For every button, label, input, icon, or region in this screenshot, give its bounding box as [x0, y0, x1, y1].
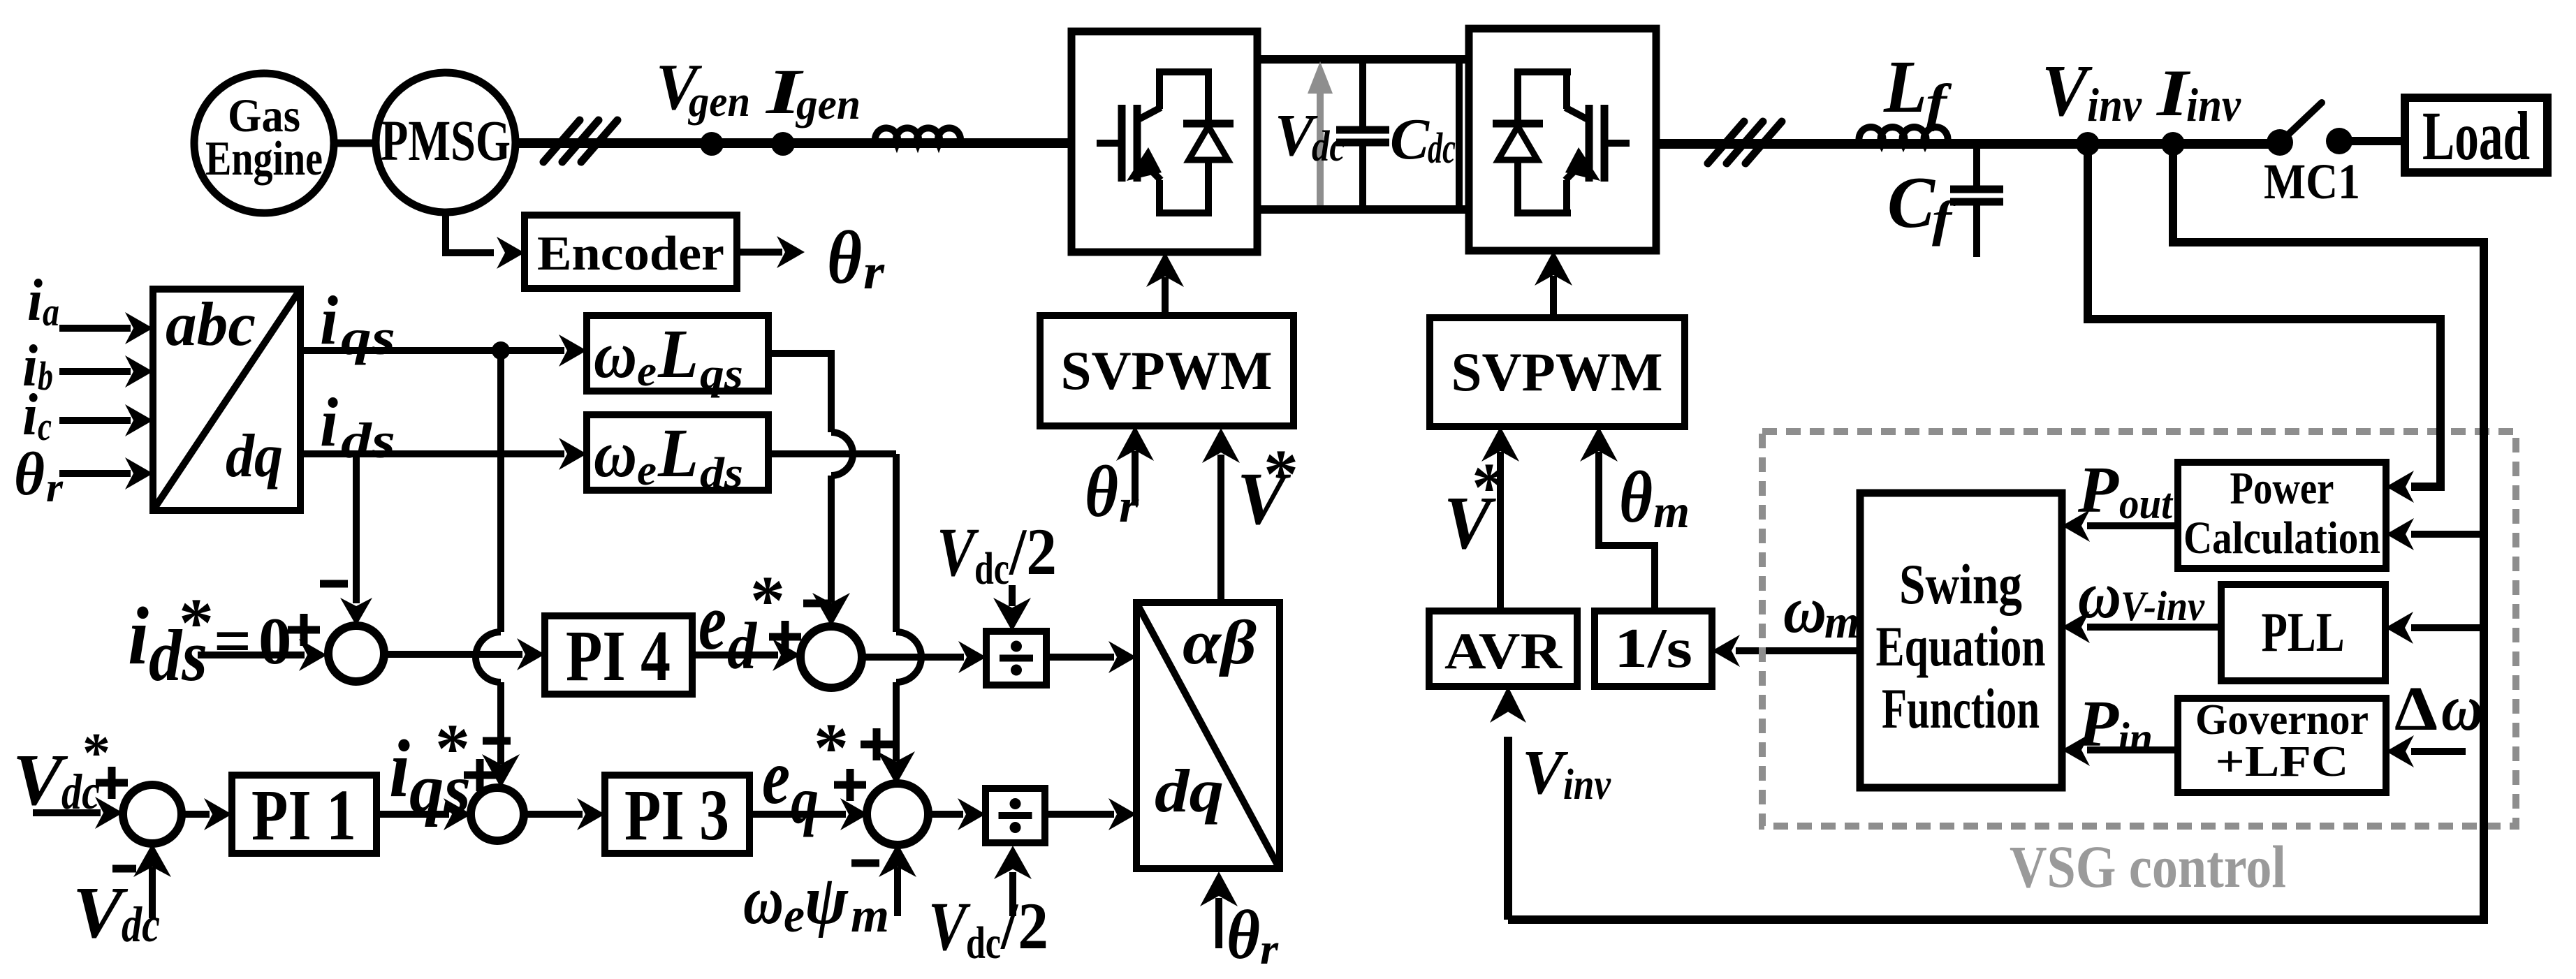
svg-text:i: i [389, 723, 410, 814]
svg-text:*: * [750, 561, 785, 639]
svg-text:inv: inv [1563, 761, 1611, 809]
svg-text:V: V [1522, 738, 1569, 807]
svg-text:/2: /2 [1000, 889, 1048, 963]
svg-text:i: i [320, 383, 338, 461]
svg-text:*: * [1264, 435, 1298, 513]
svg-text:dc: dc [974, 543, 1009, 594]
svg-text:θ: θ [827, 216, 862, 300]
svg-text:AVR: AVR [1444, 623, 1563, 680]
svg-text:P: P [2077, 688, 2120, 760]
svg-text:V: V [937, 513, 979, 591]
svg-text:e: e [637, 348, 657, 395]
svg-text:/2: /2 [1009, 515, 1057, 589]
svg-text:PLL: PLL [2262, 601, 2345, 663]
svg-text:r: r [1260, 926, 1279, 973]
svg-text:PI 3: PI 3 [624, 775, 729, 855]
svg-text:SVPWM: SVPWM [1451, 341, 1663, 402]
svg-text:r: r [1119, 479, 1139, 532]
svg-text:=: = [214, 604, 251, 678]
svg-text:ω: ω [1783, 573, 1827, 647]
svg-text:*: * [82, 723, 110, 784]
svg-text:ω: ω [2441, 672, 2483, 744]
svg-text:Function: Function [1882, 677, 2040, 740]
svg-text:θ: θ [1619, 456, 1653, 538]
svg-text:m: m [851, 889, 889, 943]
svg-text:i: i [128, 590, 149, 682]
svg-text:r: r [863, 244, 885, 300]
svg-text:θ: θ [14, 441, 45, 508]
svg-text:*: * [814, 709, 849, 786]
svg-text:PI 4: PI 4 [566, 616, 671, 696]
svg-text:V: V [13, 739, 68, 820]
svg-text:dc: dc [1428, 125, 1456, 172]
svg-text:αβ: αβ [1183, 608, 1257, 677]
svg-text:Power: Power [2230, 463, 2334, 514]
svg-text:dc: dc [122, 897, 160, 952]
svg-text:dc: dc [966, 918, 1001, 969]
svg-text:Calculation: Calculation [2183, 513, 2380, 564]
svg-text:L: L [657, 315, 698, 392]
svg-text:i: i [27, 267, 43, 333]
svg-text:ds: ds [341, 413, 395, 469]
svg-text:Swing: Swing [1899, 552, 2022, 616]
svg-text:V-inv: V-inv [2121, 583, 2205, 629]
svg-text:*: * [1472, 448, 1507, 526]
svg-text:0: 0 [258, 604, 292, 678]
svg-text:SVPWM: SVPWM [1061, 340, 1273, 401]
svg-text:e: e [637, 447, 657, 494]
svg-text:1/s: 1/s [1614, 618, 1692, 679]
svg-text:V: V [73, 871, 129, 953]
svg-text:dq: dq [1155, 758, 1224, 825]
svg-text:r: r [46, 464, 64, 510]
svg-text:PI 1: PI 1 [251, 775, 356, 855]
svg-text:ds: ds [700, 450, 743, 497]
svg-text:gen: gen [687, 78, 750, 126]
svg-text:m: m [1653, 485, 1690, 538]
svg-text:Engine: Engine [205, 132, 323, 186]
svg-text:qs: qs [341, 309, 395, 365]
svg-text:ω: ω [594, 318, 637, 392]
svg-text:in: in [2118, 713, 2153, 763]
svg-text:ω: ω [743, 861, 784, 938]
svg-text:θ: θ [1085, 450, 1118, 532]
svg-text:out: out [2119, 480, 2174, 528]
svg-text:θ: θ [1227, 896, 1260, 973]
svg-text:V: V [928, 888, 971, 965]
svg-text:C: C [1390, 107, 1430, 172]
svg-text:ω: ω [594, 417, 637, 491]
svg-text:L: L [657, 414, 698, 492]
svg-text:ψ: ψ [805, 861, 849, 938]
svg-text:C: C [1887, 161, 1936, 243]
svg-text:Encoder: Encoder [537, 227, 724, 281]
svg-text:inv: inv [2186, 78, 2241, 131]
svg-text:e: e [762, 734, 790, 820]
svg-text:VSG control: VSG control [2010, 833, 2286, 900]
svg-text:ω: ω [2078, 558, 2121, 632]
svg-text:*: * [179, 584, 214, 661]
svg-text:a: a [43, 289, 59, 334]
svg-text:Governor: Governor [2195, 696, 2369, 744]
svg-text:PMSG: PMSG [381, 108, 511, 172]
svg-text:V: V [2042, 50, 2093, 131]
svg-text:P: P [2077, 454, 2120, 527]
svg-text:Load: Load [2422, 97, 2530, 175]
svg-text:abc: abc [166, 290, 256, 359]
svg-text:Δ: Δ [2394, 675, 2438, 744]
svg-text:gen: gen [795, 81, 861, 128]
svg-text:dc: dc [1312, 123, 1345, 170]
svg-text:b: b [38, 353, 53, 399]
svg-text:inv: inv [2087, 78, 2142, 131]
svg-text:+LFC: +LFC [2216, 738, 2349, 786]
svg-text:i: i [320, 281, 338, 359]
svg-text:e: e [784, 889, 805, 943]
svg-text:qs: qs [700, 351, 743, 398]
svg-text:i: i [22, 382, 38, 448]
svg-text:L: L [1883, 46, 1927, 128]
svg-text:dq: dq [226, 422, 283, 490]
svg-text:m: m [1824, 595, 1859, 648]
svg-text:MC1: MC1 [2264, 154, 2360, 209]
svg-text:Equation: Equation [1876, 614, 2046, 678]
